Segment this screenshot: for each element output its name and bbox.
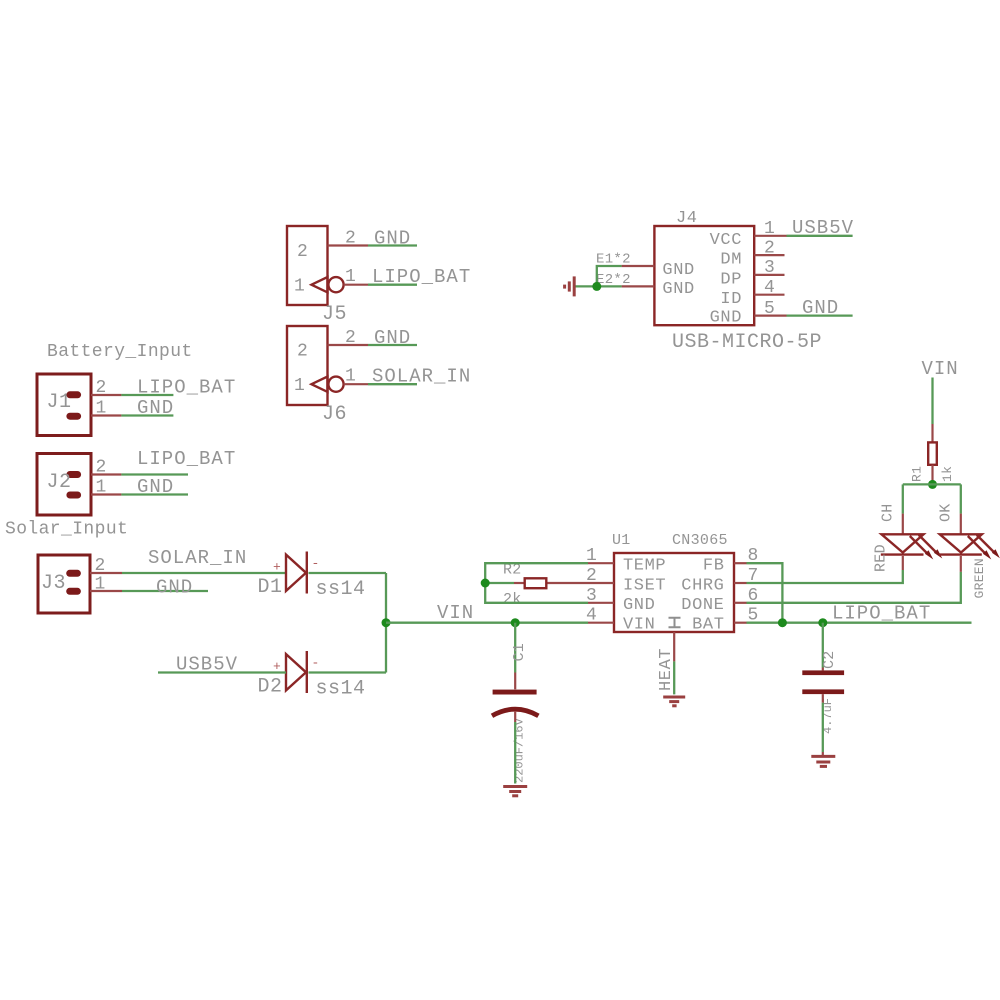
svg-text:GND: GND <box>662 280 694 299</box>
U1 thermal pad mark <box>669 618 681 628</box>
J4 pin E2 stub <box>622 285 655 287</box>
svg-text:J6: J6 <box>322 403 347 426</box>
svg-text:VIN: VIN <box>922 358 959 380</box>
svg-text:VIN: VIN <box>623 616 655 635</box>
ground symbol C1 <box>503 785 527 788</box>
svg-text:GND: GND <box>710 309 742 328</box>
wire E2 to ground <box>576 285 622 287</box>
wire DONE to green led <box>747 572 961 603</box>
J4 pin 3 stub <box>754 274 784 276</box>
svg-text:D1: D1 <box>258 576 283 599</box>
C2 top plate <box>802 670 844 675</box>
wire VIN to C1 <box>514 623 516 673</box>
svg-text:4: 4 <box>586 606 597 626</box>
capacitor C2 <box>802 623 844 767</box>
svg-text:LIPO_BAT: LIPO_BAT <box>137 377 236 399</box>
svg-text:RED: RED <box>873 544 890 572</box>
LED1 arrow 2 <box>919 535 936 552</box>
junction FB-BAT <box>778 618 787 627</box>
svg-text:1: 1 <box>294 376 305 396</box>
LED2 anode stub <box>960 514 962 534</box>
svg-text:CN3065: CN3065 <box>672 532 728 549</box>
svg-text:2: 2 <box>345 229 356 249</box>
svg-text:1: 1 <box>96 399 107 419</box>
svg-text:1: 1 <box>96 478 107 498</box>
wire GND from J6 pin 2 <box>368 344 417 346</box>
svg-text:1: 1 <box>764 219 775 239</box>
LED1 anode stub <box>902 514 904 534</box>
wire LIPO_BAT from J1 pin 2 <box>121 394 173 396</box>
J5 pin 2 stub <box>328 244 369 246</box>
J3 pin 2 stub <box>90 572 122 574</box>
svg-text:GREEN: GREEN <box>972 558 987 599</box>
C2 bottom plate <box>802 689 844 694</box>
J5 pin 1 stub <box>344 284 368 286</box>
LED1 red charge indicator <box>873 534 943 572</box>
C1 bottom lead <box>514 711 516 722</box>
connector J4 USB-MICRO-5P <box>565 209 854 354</box>
wire GND from J3 pin 1 <box>122 590 208 592</box>
wire FB to battery net <box>747 563 783 623</box>
C1 curved plate <box>492 709 538 716</box>
U1 pin 1 stub <box>588 562 614 564</box>
svg-text:J2: J2 <box>47 471 72 494</box>
svg-text:4: 4 <box>764 278 775 298</box>
LED1 arrow 1 <box>910 536 927 553</box>
junction R2 left <box>481 579 490 588</box>
wire VIN down <box>931 378 933 425</box>
wire LIPO_BAT from J2 pin 2 <box>121 473 188 475</box>
J6 pin 2 stub <box>328 344 369 346</box>
wire GND from J2 pin 1 <box>121 493 188 495</box>
resistor R2 <box>503 562 614 609</box>
op-amp U1 CN3065 <box>481 532 972 706</box>
svg-text:GND: GND <box>374 228 411 250</box>
U1 pin 7 stub <box>734 582 747 584</box>
wire CHRG to red led <box>747 570 903 583</box>
svg-text:J1: J1 <box>47 391 72 414</box>
svg-text:C1: C1 <box>511 643 528 662</box>
svg-text:LIPO_BAT: LIPO_BAT <box>832 603 931 625</box>
U1 pin 4 stub <box>588 622 614 624</box>
svg-text:GND: GND <box>623 596 655 615</box>
J5 pin 1 symbol <box>312 277 328 292</box>
svg-text:VIN: VIN <box>437 602 474 624</box>
wire LIPO_BAT to C2 <box>822 623 824 668</box>
J4 pin 1 stub <box>754 235 786 237</box>
svg-text:SOLAR_IN: SOLAR_IN <box>372 366 471 388</box>
wire GND from J4 pin 5 <box>787 314 853 316</box>
svg-text:2: 2 <box>96 458 107 478</box>
connector J2 <box>37 448 236 515</box>
ground symbol HEAT <box>663 697 685 706</box>
svg-text:2k: 2k <box>503 591 522 608</box>
svg-text:GND: GND <box>662 261 694 280</box>
junction OR node <box>382 618 391 627</box>
diode D1 <box>258 552 387 602</box>
C2 bottom lead <box>822 694 824 703</box>
wire OR-node vertical <box>385 573 387 673</box>
wire LIPO_BAT net <box>747 622 972 624</box>
ground symbol sideways <box>565 276 575 296</box>
C1 top plate <box>493 690 537 695</box>
wire led branch horizontal <box>903 483 961 485</box>
svg-text:-: - <box>312 556 320 571</box>
svg-text:1: 1 <box>345 367 356 387</box>
svg-text:1k: 1k <box>940 466 955 482</box>
svg-text:2: 2 <box>96 378 107 398</box>
J4 pin 2 stub <box>754 254 784 256</box>
wire CH branch <box>902 484 904 513</box>
J2 pin 2 stub <box>91 473 121 475</box>
U1 pin 5 stub <box>734 622 747 624</box>
connector J1 <box>37 374 236 436</box>
ground symbol C2 <box>811 755 835 758</box>
diode D2 <box>158 651 386 701</box>
svg-text:LIPO_BAT: LIPO_BAT <box>372 266 471 288</box>
svg-text:ISET: ISET <box>623 576 666 595</box>
wire USB5V from J4 pin 1 <box>787 235 853 237</box>
wire USB5V to D2 anode <box>158 671 286 673</box>
U1 pin 3 stub <box>588 602 614 604</box>
J4 pin E1 stub <box>622 265 655 267</box>
wire LIPO_BAT from J5 pin 1 <box>368 284 417 286</box>
svg-text:2: 2 <box>345 328 356 348</box>
svg-text:Battery_Input: Battery_Input <box>47 342 193 362</box>
svg-text:DP: DP <box>720 270 742 289</box>
svg-text:C2: C2 <box>821 650 838 669</box>
wire E1 to ground <box>597 266 622 286</box>
resistor R1 <box>910 424 956 484</box>
svg-text:+: + <box>273 560 281 575</box>
wire GND from J5 pin 2 <box>368 244 417 246</box>
svg-text:BAT: BAT <box>692 616 724 635</box>
svg-text:GND: GND <box>802 297 839 319</box>
svg-text:TEMP: TEMP <box>623 557 666 576</box>
wire C1 to ground <box>514 722 516 784</box>
wire SOLAR_IN from J3 pin 2 <box>122 572 286 574</box>
wire D2 cathode to OR node <box>309 671 387 673</box>
svg-text:GND: GND <box>156 577 193 599</box>
svg-text:ss14: ss14 <box>316 578 366 601</box>
J6 pin 1 stub <box>344 383 368 385</box>
svg-text:J5: J5 <box>322 303 347 326</box>
svg-text:J3: J3 <box>41 572 66 595</box>
svg-text:ID: ID <box>720 290 742 309</box>
wire R2 left lead <box>485 582 514 584</box>
svg-text:GND: GND <box>374 327 411 349</box>
LED2 arrow 1 <box>968 536 985 553</box>
U1 pin 8 stub <box>734 562 747 564</box>
wire OK branch <box>960 484 962 513</box>
capacitor C1 <box>492 623 538 796</box>
svg-text:D2: D2 <box>258 676 283 699</box>
J3 pin 1 stub <box>90 590 122 592</box>
svg-text:USB5V: USB5V <box>176 654 238 676</box>
LED2 arrow 2 <box>977 535 994 552</box>
svg-text:1: 1 <box>95 575 106 595</box>
J6 pin 1 symbol <box>312 377 328 392</box>
svg-text:SOLAR_IN: SOLAR_IN <box>148 547 247 569</box>
svg-text:DM: DM <box>720 251 742 270</box>
svg-text:GND: GND <box>137 397 174 419</box>
svg-text:USB5V: USB5V <box>792 217 854 239</box>
svg-text:CHRG: CHRG <box>681 576 724 595</box>
svg-text:2: 2 <box>95 556 106 576</box>
svg-text:3: 3 <box>764 258 775 278</box>
connector J3 <box>38 547 286 613</box>
svg-text:FB: FB <box>703 557 725 576</box>
junction BAT-C2 <box>818 618 827 627</box>
svg-text:VCC: VCC <box>710 231 742 250</box>
svg-text:ss14: ss14 <box>316 678 366 701</box>
connector J5 <box>287 226 471 326</box>
svg-text:J4: J4 <box>676 209 698 228</box>
svg-text:-: - <box>312 656 320 671</box>
junction R1 bottom <box>928 480 937 489</box>
wire SOLAR_IN from J6 pin 1 <box>368 383 417 385</box>
junction E1 E2 <box>592 282 601 291</box>
svg-text:5: 5 <box>764 299 775 319</box>
wire TEMP GND loop <box>485 563 588 603</box>
J4 pin 5 stub <box>754 315 786 317</box>
svg-text:1: 1 <box>294 277 305 297</box>
J4 pin 4 stub <box>754 294 784 296</box>
svg-text:R1: R1 <box>910 466 925 482</box>
junction VIN to C1 <box>511 618 520 627</box>
svg-text:GND: GND <box>137 476 174 498</box>
svg-text:USB-MICRO-5P: USB-MICRO-5P <box>672 331 822 354</box>
J1 pin 1 stub <box>91 414 121 416</box>
svg-text:CH: CH <box>880 503 897 522</box>
connector J6 <box>287 326 471 426</box>
J2 pin 1 stub <box>91 493 121 495</box>
svg-text:LIPO_BAT: LIPO_BAT <box>137 448 236 470</box>
U1 pin 6 stub <box>734 602 747 604</box>
LED2 green ok indicator <box>939 534 1000 598</box>
svg-text:OK: OK <box>938 503 955 522</box>
wire D1 cathode to OR node <box>309 572 387 574</box>
wire C2 to ground <box>822 703 824 752</box>
wire GND from J1 pin 1 <box>121 414 173 416</box>
svg-text:DONE: DONE <box>681 596 724 615</box>
svg-text:2: 2 <box>297 242 308 262</box>
wire HEAT to ground <box>673 661 675 694</box>
svg-text:U1: U1 <box>612 532 631 549</box>
svg-text:1: 1 <box>345 267 356 287</box>
J1 pin 2 stub <box>91 394 121 396</box>
svg-text:Solar_Input: Solar_Input <box>5 520 128 540</box>
svg-text:2: 2 <box>297 342 308 362</box>
svg-text:2: 2 <box>764 238 775 258</box>
U1 HEAT pin stub <box>673 632 675 661</box>
wire VIN net <box>386 622 588 624</box>
